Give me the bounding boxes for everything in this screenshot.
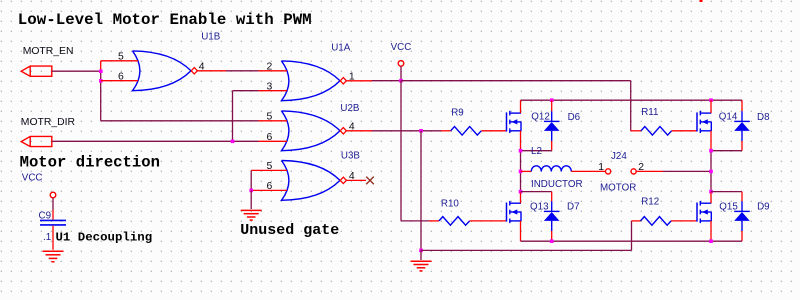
svg-text:6: 6 <box>118 72 124 83</box>
port MOTR_EN <box>21 46 73 76</box>
junction U2B output drop <box>419 129 423 133</box>
junction Q15 source <box>709 239 713 243</box>
transistor Q13 <box>507 193 522 242</box>
nor gate U1B body <box>133 51 192 91</box>
U3B output bubble <box>340 177 346 183</box>
wire U2B output to R9 <box>372 130 441 132</box>
junction at U1B pin 6 <box>99 79 103 83</box>
no-connect X on U3B output <box>366 177 374 185</box>
svg-text:6: 6 <box>267 181 273 192</box>
svg-text:Q13: Q13 <box>530 201 549 212</box>
svg-text:U1 Decoupling: U1 Decoupling <box>56 231 153 245</box>
wire D6 anode tap <box>521 150 552 152</box>
wire MOTR_EN to junction <box>52 70 101 72</box>
svg-text:C9: C9 <box>39 210 52 221</box>
junction VCC U1A output <box>399 79 403 83</box>
clipped symbol at top edge <box>700 0 703 2</box>
wire U2B output down to ground rail <box>420 131 422 251</box>
svg-text:U1B: U1B <box>201 32 221 43</box>
inductor L2 <box>521 166 606 172</box>
svg-text:R12: R12 <box>641 196 659 207</box>
U1A pin 3 stub <box>259 90 288 92</box>
svg-text:MOTR_DIR: MOTR_DIR <box>21 117 76 128</box>
resistor R12 <box>632 217 698 226</box>
svg-text:D7: D7 <box>567 201 580 212</box>
svg-text:6: 6 <box>267 132 273 143</box>
svg-text:R9: R9 <box>451 107 464 118</box>
svg-text:1: 1 <box>349 72 355 83</box>
junction left node D7 tap <box>519 190 523 194</box>
ground below C9 <box>43 251 64 262</box>
wire U1B output to U1A pin 2 <box>226 70 259 72</box>
junction MOTR_DIR at U1A pin3 drop <box>231 140 235 144</box>
U1A output bubble <box>340 78 346 84</box>
junction left node D6 tap <box>519 149 523 153</box>
power VCC left <box>22 173 56 220</box>
svg-text:Q15: Q15 <box>719 201 738 212</box>
svg-text:1: 1 <box>598 162 604 173</box>
svg-text:VCC: VCC <box>22 173 43 184</box>
svg-text:.1: .1 <box>43 232 51 243</box>
bridge source rail <box>521 240 743 242</box>
nor gate U2B body <box>282 111 341 151</box>
junction D6 top <box>550 98 554 102</box>
junction left node inductor tap <box>519 170 523 174</box>
J24 pin 2 <box>631 162 644 174</box>
U1B pin 5 stub <box>101 60 138 62</box>
wire to R10 <box>401 220 429 222</box>
svg-text:U1A: U1A <box>331 42 351 53</box>
wire ground rail <box>421 249 632 251</box>
junction right node D8 tap <box>709 149 713 153</box>
U3B pin 6 stub <box>251 189 287 191</box>
port MOTR_DIR <box>21 117 76 147</box>
U1A pin 2 stub <box>259 70 288 72</box>
ground symbol bridge <box>411 250 432 271</box>
svg-text:3: 3 <box>267 82 273 93</box>
wire U1A output to VCC junction <box>372 80 401 82</box>
resistor R11 <box>631 127 697 136</box>
U1B output bubble <box>191 68 197 74</box>
svg-text:R10: R10 <box>441 198 460 209</box>
wire MOTR_DIR to U2B pin 6 <box>52 140 259 142</box>
resistor R10 <box>429 217 507 226</box>
transistor Q15 <box>697 193 711 242</box>
svg-text:R11: R11 <box>641 107 658 118</box>
bridge top rail <box>521 99 743 101</box>
svg-text:D8: D8 <box>757 112 770 123</box>
svg-text:VCC: VCC <box>391 42 412 53</box>
svg-text:INDUCTOR: INDUCTOR <box>531 179 583 190</box>
ground below U3B <box>241 210 262 220</box>
svg-text:4: 4 <box>199 62 205 73</box>
diode D7 <box>544 192 560 242</box>
svg-text:2: 2 <box>267 62 273 73</box>
junction right node J24 tap <box>709 170 713 174</box>
wire left motor node vertical <box>520 151 522 193</box>
wire J24 pin2 to right node <box>636 170 711 172</box>
wire right motor node vertical <box>710 151 712 193</box>
junction Q14 drain <box>709 98 713 102</box>
nor gate U1A body <box>282 61 341 101</box>
svg-text:U3B: U3B <box>341 151 361 162</box>
diode D8 <box>734 100 750 151</box>
U2B pin 4 stub <box>346 130 372 132</box>
wire U1A pin 3 from MOTR_DIR <box>233 91 259 142</box>
wire D7 cathode tap <box>521 191 552 193</box>
svg-text:MOTR_EN: MOTR_EN <box>23 46 74 57</box>
diode D9 <box>734 192 750 242</box>
wire U3B inputs to ground <box>250 190 252 209</box>
svg-text:D6: D6 <box>568 112 581 123</box>
nor gate U3B body <box>282 161 341 201</box>
svg-text:4: 4 <box>349 171 355 182</box>
wire MOTR_EN to U2B pin 5 <box>101 120 259 122</box>
junction at ground rail <box>419 249 423 253</box>
U1B pin 4 stub <box>197 70 226 72</box>
wire U3B tied inputs <box>250 170 252 190</box>
resistor R9 <box>441 127 507 136</box>
diode D6 <box>544 100 560 151</box>
svg-text:4: 4 <box>349 122 355 133</box>
wire D8 anode tap <box>711 150 742 152</box>
junction right node D9 tap <box>709 190 713 194</box>
U2B output bubble <box>340 128 346 134</box>
svg-text:D9: D9 <box>757 201 770 212</box>
svg-text:Motor direction: Motor direction <box>20 153 160 171</box>
svg-text:MOTOR: MOTOR <box>600 182 636 193</box>
svg-text:5: 5 <box>267 112 273 123</box>
U1A pin 1 stub <box>346 80 372 82</box>
svg-text:5: 5 <box>118 52 124 63</box>
wire MOTR_EN vertical to U1B pins <box>100 61 102 121</box>
svg-text:L2: L2 <box>531 146 542 157</box>
wire down to R11 <box>630 81 632 131</box>
svg-text:Low-Level Motor Enable with PW: Low-Level Motor Enable with PWM <box>18 11 312 29</box>
svg-text:J24: J24 <box>611 151 627 162</box>
wire D9 cathode tap <box>711 191 742 193</box>
wire ground rail up to R12 <box>631 221 633 251</box>
svg-text:U2B: U2B <box>340 103 360 114</box>
wire U1A output down left <box>400 81 402 221</box>
wire U1A output right rail <box>401 80 631 82</box>
transistor Q14 <box>697 100 711 151</box>
U3B pin 5 stub <box>251 169 287 171</box>
U2B pin 6 stub <box>259 140 288 142</box>
junction D7 anode <box>550 239 554 243</box>
svg-text:Unused gate: Unused gate <box>240 222 339 239</box>
U2B pin 5 stub <box>259 120 288 122</box>
U1B pin 6 stub <box>101 80 138 82</box>
capacitor C9 <box>40 220 66 249</box>
J24 pin 1 <box>598 162 610 174</box>
junction on MOTR_EN wire <box>99 70 103 74</box>
svg-text:5: 5 <box>267 161 273 172</box>
U3B pin 4 stub <box>346 179 366 181</box>
power VCC top <box>391 42 412 80</box>
transistor Q12 <box>507 100 522 151</box>
junction U3B pin 6 <box>249 189 253 193</box>
